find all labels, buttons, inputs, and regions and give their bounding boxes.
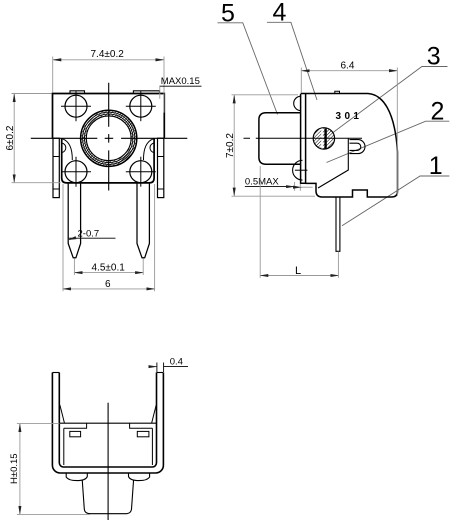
body side edges (63, 428, 65, 465)
top small tab (335, 91, 340, 93)
svg-text:0.5MAX: 0.5MAX (245, 176, 279, 187)
wall top edges (52, 372, 59, 374)
svg-text:6.4: 6.4 (341, 61, 355, 72)
top tab right (133, 91, 159, 94)
body top edge (59, 422, 156, 424)
pin right (137, 183, 149, 258)
svg-text:7.4±0.2: 7.4±0.2 (91, 49, 125, 60)
foot left (66, 473, 87, 481)
notch arc right (150, 143, 154, 153)
bracket inner (59, 373, 156, 468)
step left (64, 423, 87, 428)
chamfer left (60, 405, 65, 423)
bump center chord (295, 169, 308, 171)
button stem (82, 480, 133, 514)
svg-text:2-0.7: 2-0.7 (78, 228, 100, 239)
svg-text:5: 5 (221, 0, 235, 28)
body base with rounded bottom corners (62, 138, 154, 183)
corner circle TL (61, 91, 91, 121)
centerline vertical (108, 83, 110, 191)
terminal D loop (350, 140, 366, 154)
centerline (244, 137, 363, 139)
center button ring hatched (81, 110, 137, 166)
notch arc left (62, 143, 66, 153)
step right (130, 423, 153, 428)
internal edge diagonal (318, 138, 348, 188)
svg-text:0.4: 0.4 (170, 357, 183, 368)
plate top bump (294, 96, 301, 110)
svg-text:6: 6 (105, 279, 111, 290)
svg-text:MAX0.15: MAX0.15 (161, 76, 200, 87)
pin (336, 197, 340, 252)
plate bottom bump (293, 160, 303, 180)
rivet hatched circle (313, 127, 334, 150)
body cover outline (53, 94, 165, 139)
svg-text:301: 301 (336, 111, 363, 122)
centerline (107, 403, 109, 520)
svg-text:4.5±0.1: 4.5±0.1 (92, 263, 126, 274)
svg-text:H±0.15: H±0.15 (9, 453, 20, 484)
corner circle BR (126, 157, 156, 187)
slot left (70, 431, 81, 436)
top tab left (70, 91, 85, 94)
corner circle TR (126, 91, 156, 121)
bracket plate (301, 94, 306, 183)
foot right (129, 473, 150, 481)
side tab right (158, 138, 164, 197)
centerline horizontal (31, 137, 188, 139)
corner circle BL (61, 157, 91, 187)
chamfer right (152, 405, 157, 423)
slot right (137, 431, 149, 436)
pin left (68, 183, 80, 258)
button (259, 113, 301, 164)
side tab left (53, 138, 59, 197)
main body (301, 94, 398, 198)
bracket outer (52, 373, 163, 474)
